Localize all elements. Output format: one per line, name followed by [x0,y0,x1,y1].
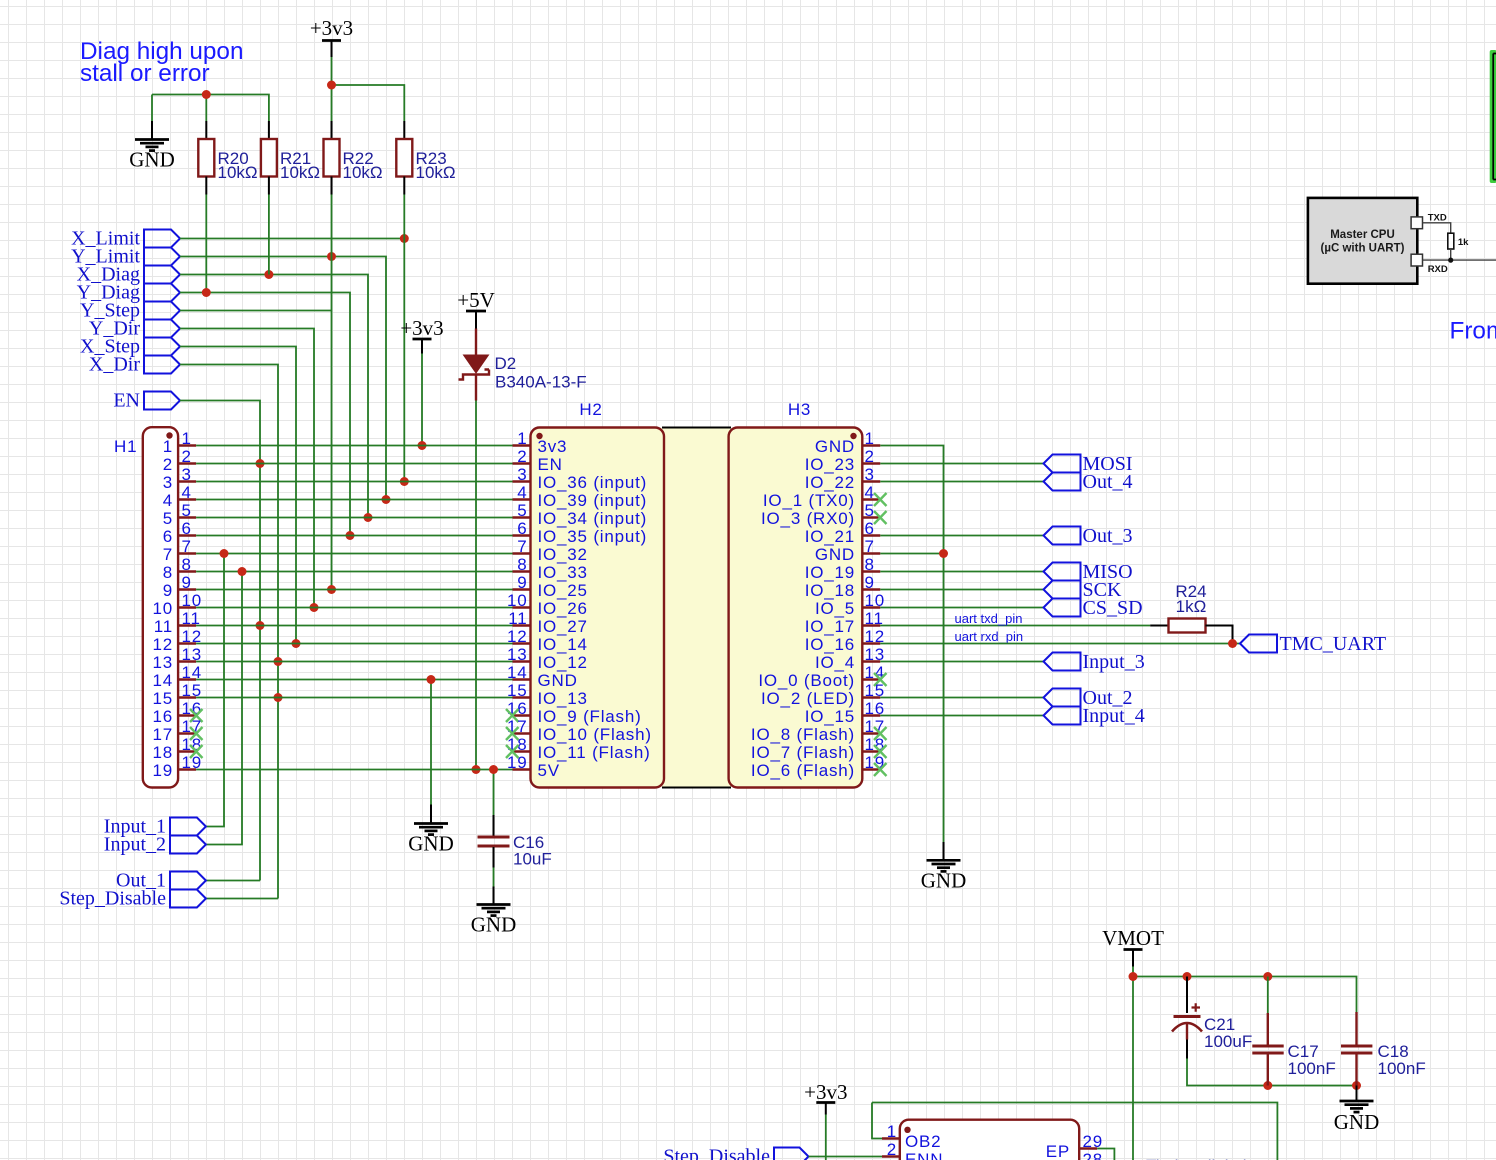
svg-text:IO_39 (input): IO_39 (input) [538,491,648,510]
svg-text:IO_2 (LED): IO_2 (LED) [761,689,855,708]
svg-text:IO_5: IO_5 [815,599,855,618]
svg-text:IO_35 (input): IO_35 (input) [538,527,648,546]
H1 pin 16 [178,714,196,716]
wire H1.8 to H2.8 [196,571,512,573]
junction col278/pin15 [274,693,283,702]
SECTION: H3 right wires and flags [880,446,1386,893]
svg-text:4: 4 [865,483,875,502]
svg-text:+5V: +5V [457,288,495,312]
SECTION: H1 pins and H1-H2 wires [152,429,202,780]
resistor 1k [1448,233,1454,249]
H3 pin 11 IO_17 [862,624,880,626]
net flag Out_1 [170,872,206,890]
svg-text:EN: EN [538,455,563,474]
svg-text:8: 8 [517,555,527,574]
H1 pin 19 [178,768,196,770]
svg-text:stall or error: stall or error [80,60,210,87]
junction VMOT/rail [1129,972,1138,981]
OB2 pin 1 [882,1137,900,1139]
H1 pin 8 [178,570,196,572]
svg-text:100nF: 100nF [1288,1059,1336,1078]
H2 pin 11 IO_27 [513,624,531,626]
H3 pin 13 IO_4 [862,660,880,662]
SECTION: H2 pins [506,429,652,780]
svg-text:Step_Disable: Step_Disable [59,888,166,910]
wire R22 column to H2 pin9 [331,195,333,590]
svg-text:Out_4: Out_4 [1083,471,1133,493]
junction col224/pin7 [220,549,229,558]
wire H3.11 to R24 [880,625,1150,627]
H1 pin 5 [178,516,196,518]
svg-text:GND: GND [815,437,855,456]
svg-text:IO_12: IO_12 [538,653,588,672]
svg-text:10kΩ: 10kΩ [343,163,383,182]
wire H1.10 to H2.10 [196,607,512,609]
H3 pin 19 IO_6 (Flash) [862,768,880,770]
H2 pin 10 IO_26 [513,606,531,608]
junction bottom rail/C17 [1263,1081,1272,1090]
resistor R24 [1150,582,1232,644]
junction Y_Diag/R20 [202,288,211,297]
wire +3v3 to H2 pin1 [421,354,423,446]
junction col331/pin9 [327,585,336,594]
no-connect X H1 pin 18 [190,745,203,758]
svg-text:Out_3: Out_3 [1083,525,1133,547]
H1 pin 6 [178,534,196,536]
svg-text:IO_22: IO_22 [805,473,855,492]
ground GND (top-left) [129,95,175,172]
svg-text:IO_1 (TX0): IO_1 (TX0) [763,491,855,510]
junction +3v3/pin1 [418,441,427,450]
svg-text:2: 2 [163,455,173,474]
IC Master CPU [1308,198,1417,284]
wire +3v3 net to R23 [332,85,405,121]
module body gap [660,428,733,787]
net flag Y_Step [144,302,180,320]
wire TXD to 1k [1423,223,1451,233]
svg-text:5: 5 [163,509,173,528]
svg-text:H3: H3 [788,400,811,419]
svg-text:5: 5 [865,501,875,520]
no-connect X H3 pin 19 [874,763,887,776]
H1 pin 13 [178,660,196,662]
svg-text:3: 3 [182,465,192,484]
wire Input_1 to H2 pin7 column [206,554,224,827]
wire +3v3 down [825,1115,827,1160]
junction col260/pin2 [256,459,265,468]
wire H3.6 to flag Out_3 [880,535,1043,537]
svg-text:IO_23: IO_23 [805,455,855,474]
no-connect X H1 pin 17 [190,727,203,740]
wire H1.14 to H2.14 [196,679,512,681]
svg-text:7: 7 [865,537,875,556]
junction col260/pin11 [256,621,265,630]
ground GND (bottom right) [1356,1086,1358,1101]
svg-text:IO_14: IO_14 [538,635,588,654]
svg-text:7: 7 [517,537,527,556]
junction RXD/1k [1448,258,1453,263]
svg-text:18: 18 [507,735,528,754]
svg-text:GND: GND [471,913,517,937]
wire H1.3 to H2.3 [196,481,512,483]
svg-text:IO_7 (Flash): IO_7 (Flash) [751,743,855,762]
svg-text:19: 19 [152,761,173,780]
H2 pin 17 IO_10 (Flash) [513,732,531,734]
no-connect X H2 pin 18 [506,745,519,758]
SECTION: left net flags [71,228,180,412]
H1 pin 7 [178,552,196,554]
svg-text:IO_26: IO_26 [538,599,588,618]
wire H1.11 to H2.11 [196,625,512,627]
net flag Step_Disable [170,890,206,908]
svg-text:Step_Disable: Step_Disable [663,1146,770,1160]
SECTION: power near diode [400,288,586,774]
wire VMOT down [1132,967,1134,1160]
svg-text:TMC_UART: TMC_UART [1280,633,1387,655]
no-connect X H3 pin 14 [874,673,887,686]
SECTION: bottom power section [1102,926,1426,1160]
wire C16 to GND [493,868,495,887]
junction bottom rail/C18 [1352,1081,1361,1090]
svg-text:2: 2 [182,447,192,466]
wire H3.8 to flag MISO [880,571,1043,573]
wire R20 top [205,95,207,122]
svg-text:(µC with UART): (µC with UART) [1321,243,1405,255]
H3 pin 17 IO_8 (Flash) [862,732,880,734]
svg-text:IO_13: IO_13 [538,689,588,708]
H3 pin 10 IO_5 [862,606,880,608]
net flag Step_Disable (bottom) [774,1148,809,1160]
junction col278/pin13 [274,657,283,666]
net flag Out_2 [1044,689,1081,707]
svg-text:uart rxd_pin: uart rxd_pin [955,629,1024,644]
wire H3.10 to flag CS_SD [880,607,1043,609]
wire Y_Dir [180,329,314,608]
svg-text:Master CPU: Master CPU [1330,229,1395,241]
pin TXD [1411,217,1422,229]
no-connect X H3 pin 4 [874,493,887,506]
junction Y_Limit/R22 [327,252,336,261]
svg-text:3: 3 [163,473,173,492]
wire Y_Step [180,310,332,312]
svg-text:8: 8 [163,563,173,582]
H1 pin 11 [178,624,196,626]
H2 pin 14 GND [513,678,531,680]
junction R20 top [202,90,211,99]
svg-text:4: 4 [182,483,192,502]
wire H3.7 GND [880,553,943,555]
H1 pin 2 [178,462,196,464]
svg-text:X_Dir: X_Dir [89,354,140,376]
H2 pin 6 IO_35 (input) [513,534,531,536]
capacitor C18 [1341,1012,1426,1086]
svg-text:10kΩ: 10kΩ [280,163,320,182]
svg-text:1: 1 [517,429,527,448]
wire 3v3 rail to OB2 pin1 [872,1103,882,1139]
net flag Y_Dir [144,320,180,338]
junction col296/pin12 [292,639,301,648]
wire H1.12 to H2.12 [196,643,512,645]
svg-text:+3v3: +3v3 [804,1080,847,1104]
H3 pin 2 IO_23 [862,462,880,464]
net flag X_Dir [144,356,180,374]
svg-text:IO_21: IO_21 [805,527,855,546]
connector H3 [729,428,863,788]
wire H3.1 GND [880,446,943,843]
wire H1.1 to H2.1 [196,445,512,447]
wire H1.7 to H2.7 [196,553,512,555]
ground GND (center-left) [430,805,432,824]
wire GND net R20/R21 [152,95,269,122]
svg-text:1: 1 [182,429,192,448]
svg-text:4: 4 [163,491,173,510]
svg-text:IO_17: IO_17 [805,617,855,636]
svg-text:IO_15: IO_15 [805,707,855,726]
svg-text:IO_9 (Flash): IO_9 (Flash) [538,707,642,726]
svg-text:12: 12 [152,635,173,654]
svg-text:17: 17 [152,725,173,744]
SECTION: headers H2 H3 [531,400,863,788]
junction rail/C17 [1263,972,1272,981]
connector H1 [143,427,178,787]
net flag MOSI [1044,455,1081,473]
H2 pin 19 5V [513,768,531,770]
H2 pin 2 EN [513,462,531,464]
SECTION: left flag wires to columns [180,195,409,899]
junction X_Limit/R23 [400,234,409,243]
svg-text:5V: 5V [538,761,560,780]
svg-text:IO_19: IO_19 [805,563,855,582]
wire X_Dir [180,365,278,899]
net flag Input_2 [170,836,206,854]
net flag X_Limit [144,230,180,248]
junction pin14 [427,675,436,684]
H3 pin 3 IO_22 [862,480,880,482]
svg-text:GND: GND [921,869,967,893]
junction col368/pin5 [364,513,373,522]
junction +3v3/R22/R23 [327,81,336,90]
svg-text:From: From [1450,318,1496,345]
svg-text:H2: H2 [579,400,602,419]
IC OB2 [882,1120,1103,1160]
svg-text:2: 2 [865,447,875,466]
svg-text:1kΩ: 1kΩ [1176,597,1207,616]
H3 pin 15 IO_2 (LED) [862,696,880,698]
wire X_Diag [180,275,368,518]
svg-text:Input_2: Input_2 [104,834,166,856]
svg-text:16: 16 [507,699,528,718]
svg-text:4: 4 [517,483,527,502]
junction col386/pin4 [382,495,391,504]
H3 pin 12 IO_16 [862,642,880,644]
svg-text:IO_27: IO_27 [538,617,588,636]
svg-text:Input_4: Input_4 [1083,705,1145,727]
ground GND (below C16) [493,887,495,905]
capacitor C17 [1252,977,1335,1086]
svg-text:100nF: 100nF [1378,1059,1426,1078]
svg-text:IO_36 (input): IO_36 (input) [538,473,648,492]
svg-text:6: 6 [182,519,192,538]
H3 pin 8 IO_19 [862,570,880,572]
wire Step_Disable to OB2 pin2 [809,1156,883,1158]
svg-text:5: 5 [517,501,527,520]
SECTION: wires H1 to H2 [196,446,512,770]
SECTION: master CPU image (top right) [1308,50,1496,345]
svg-text:H1: H1 [114,437,137,456]
wire R21 bottom to X_Diag [268,195,270,275]
wire 5V row to C16 [493,770,495,816]
wire H1.9 to H2.9 [196,589,512,591]
svg-text:9: 9 [517,573,527,592]
diode D2 B340A-13-F [459,329,587,401]
svg-text:GND: GND [1334,1110,1380,1134]
H2 pin 3 IO_36 (input) [513,480,531,482]
svg-text:+3v3: +3v3 [310,16,353,40]
H3 pin 9 IO_18 [862,588,880,590]
H2 pin 16 IO_9 (Flash) [513,714,531,716]
wire H1.13 to H2.13 [196,661,512,663]
svg-text:6: 6 [163,527,173,546]
wire H3.3 to flag Out_4 [880,481,1043,483]
H1 pin 18 [178,750,196,752]
svg-text:8: 8 [865,555,875,574]
connector H2 [531,428,665,788]
svg-text:17: 17 [507,717,528,736]
wire 1k to RXD line [1423,249,1496,260]
wire H1.19 to H2.19 [196,769,512,771]
wire X_Limit column to H2 pin3 [403,195,405,482]
wire H1.4 to H2.4 [196,499,512,501]
svg-text:OB2: OB2 [905,1132,941,1151]
svg-text:10uF: 10uF [513,850,552,869]
H3 pin 7 GND [862,552,880,554]
net flag CS_SD [1044,599,1081,617]
SECTION: bottom-left flags [59,549,278,910]
wire +3v3 to junction and R22 [331,57,333,121]
svg-text:9: 9 [163,581,173,600]
net flag Y_Diag [144,284,180,302]
svg-text:2: 2 [887,1140,897,1159]
svg-text:17: 17 [182,717,203,736]
no-connect X H3 pin 18 [874,745,887,758]
svg-text:1k: 1k [1458,237,1469,248]
svg-text:7: 7 [163,545,173,564]
svg-text:16: 16 [182,699,203,718]
svg-text:28: 28 [1083,1150,1104,1160]
svg-text:D2: D2 [495,354,517,373]
svg-text:10kΩ: 10kΩ [218,163,258,182]
wire R20 bottom to Y_Diag [205,195,207,293]
power flag +3v3 (top) [310,16,353,57]
pin RXD [1411,254,1422,266]
wire H1.6 to H2.6 [196,535,512,537]
no-connect X H3 pin 17 [874,727,887,740]
H2 pin 5 IO_34 (input) [513,516,531,518]
wire H1.5 to H2.5 [196,517,512,519]
H1 pin 4 [178,498,196,500]
svg-text:TXD: TXD [1428,213,1447,224]
junction 5V/pin19 [472,765,481,774]
junction col404/pin3 [400,477,409,486]
svg-text:1: 1 [163,437,173,456]
svg-text:IO_4: IO_4 [815,653,855,672]
wire H1.15 to H2.15 [196,697,512,699]
svg-text:Input_3: Input_3 [1083,651,1145,673]
ground GND (right) [943,842,945,860]
svg-text:5: 5 [182,501,192,520]
svg-text:9: 9 [865,573,875,592]
svg-text:GND: GND [129,148,175,172]
SECTION: H3 pins [751,429,887,780]
wire H3.9 to flag SCK [880,589,1043,591]
resistor R23 [396,121,455,195]
svg-text:EN: EN [113,390,140,412]
wire H3.13 to flag Input_3 [880,661,1043,663]
net flag TMC_UART [1240,635,1277,653]
junction col350/pin6 [346,531,355,540]
svg-text:B340A-13-F: B340A-13-F [495,373,587,392]
no-connect X H2 pin 16 [506,709,519,722]
net flag SCK [1044,581,1081,599]
OB2 pin 29 EP [1079,1147,1097,1149]
net flag X_Diag [144,266,180,284]
svg-text:9: 9 [182,573,192,592]
resistor R22 [324,121,383,195]
svg-text:1: 1 [865,429,875,448]
svg-text:IO_18: IO_18 [805,581,855,600]
SECTION: OB2 area [663,1080,1277,1160]
module green box (top right, clipped) [1490,50,1496,183]
wire H3.2 to flag MOSI [880,463,1043,465]
svg-text:GND: GND [815,545,855,564]
wire X_Limit [180,238,404,240]
net flag Out_3 [1044,527,1081,545]
svg-text:IO_8 (Flash): IO_8 (Flash) [751,725,855,744]
svg-text:15: 15 [152,689,173,708]
svg-text:3: 3 [865,465,875,484]
svg-text:GND: GND [538,671,578,690]
wire H3.16 to flag Input_4 [880,715,1043,717]
svg-text:8: 8 [182,555,192,574]
H1 pin 15 [178,696,196,698]
net flag Out_4 [1044,473,1081,491]
H1 pin 14 [178,678,196,680]
wire Out_1 [206,880,260,882]
H2 pin 13 IO_12 [513,660,531,662]
net flag Input_1 [170,818,206,836]
H1 pin 1 [178,444,196,446]
svg-text:IO_3 (RX0): IO_3 (RX0) [761,509,855,528]
wire D2 cathode to 5V row [475,401,477,770]
H1 pin 17 [178,732,196,734]
H2 pin 4 IO_39 (input) [513,498,531,500]
svg-text:IO_33: IO_33 [538,563,588,582]
junction X_Diag/R21 [264,270,273,279]
junction col242/pin8 [238,567,247,576]
H3 pin 1 GND [862,444,880,446]
svg-text:CS_SD: CS_SD [1083,597,1143,619]
net flag EN [144,392,180,410]
SECTION: mid ground and C16 [408,675,552,937]
wire EP down [1097,1149,1114,1160]
wire H1.2 to H2.2 [196,463,512,465]
svg-text:IO_10 (Flash): IO_10 (Flash) [538,725,652,744]
svg-text:6: 6 [865,519,875,538]
svg-text:IO_0 (Boot): IO_0 (Boot) [758,671,855,690]
H2 pin 12 IO_14 [513,642,531,644]
SECTION: header H1 [114,427,178,787]
svg-text:7: 7 [182,537,192,556]
